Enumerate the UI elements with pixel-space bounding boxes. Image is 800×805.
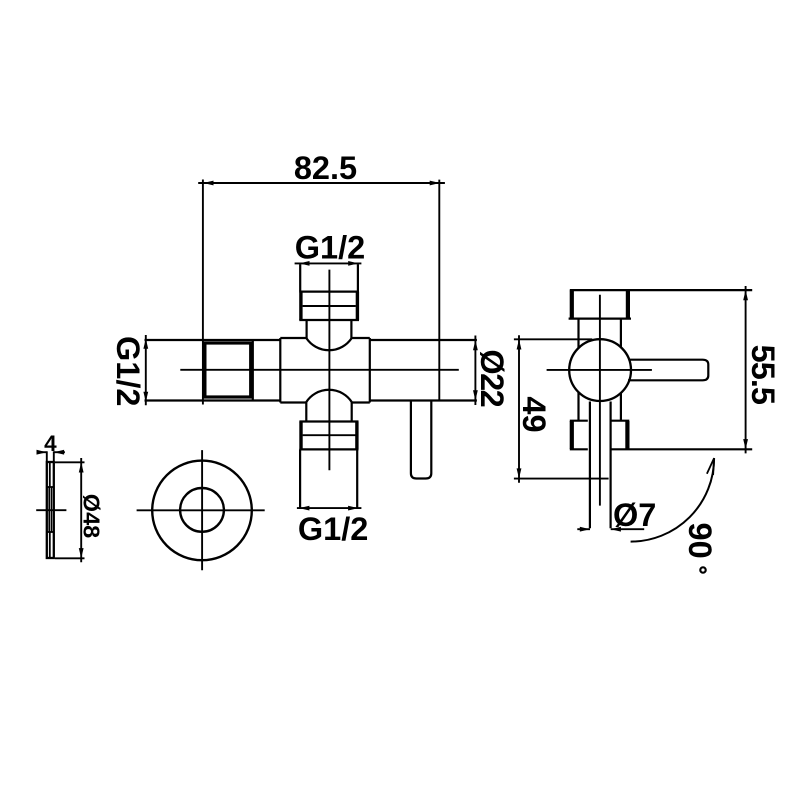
left flange side view outer rect [47, 462, 54, 558]
main view: outlet rod [411, 401, 431, 479]
dimension diameter-7 line left segment [577, 528, 590, 530]
main view: bottom nut top edge [299, 420, 358, 422]
right view: column right line lower part [620, 393, 622, 421]
dimension 4 left line segment [38, 451, 47, 453]
dimension diameter-48 top arrow [79, 462, 84, 472]
main view: bottom pipe left line [299, 449, 301, 508]
dimension 55.5 bottom arrow [743, 439, 748, 449]
dimension G1/2 left top arrow [143, 339, 148, 349]
main view: valve body left port section bottom line [145, 399, 281, 401]
circle view crosshair horizontal [137, 509, 265, 511]
dimension diameter-22 top arrow [473, 340, 478, 350]
dimension diameter-22 line [474, 336, 476, 406]
dimension diameter-48 bottom extension line [55, 557, 85, 559]
main view: top neck left line [306, 320, 308, 339]
main view: top nut bottom edge [299, 319, 359, 321]
right view: hose tube left line [589, 402, 591, 529]
right view: horizontal centerline through knob [547, 369, 652, 371]
main view: bottom neck right line [351, 402, 353, 422]
dimension diameter-7 line right segment [611, 528, 645, 530]
svg-text:49: 49 [516, 396, 552, 432]
main view: boss left edge vertical [279, 338, 281, 403]
right view: column left line lower part [577, 392, 579, 420]
dimension 4 right line segment [54, 451, 65, 453]
svg-text:90: 90 [682, 523, 718, 559]
main view: top nut mid facet line [303, 305, 356, 307]
main view: boss section top line (left of top neck) [280, 337, 306, 339]
dimension 82.5 right arrow [430, 181, 440, 186]
right view: lower rect bottom line left segment [570, 448, 588, 450]
main view: right section bottom line (extends as diameter-22 extension) [370, 399, 477, 401]
right view: handle outline [628, 360, 708, 381]
left flange tick upper [47, 486, 54, 488]
main view: top neck right line [350, 320, 352, 339]
main view: internal vertical line right of square [252, 340, 254, 401]
main view: boss section bottom line (left of bottom neck) [280, 401, 306, 403]
right view: vertical centerline [599, 295, 601, 506]
main view: valve body left port section top line [145, 339, 281, 341]
left flange crosshair horizontal [36, 509, 66, 511]
dimension G1/2 left vertical line [145, 335, 147, 405]
main view: top dome arc [307, 339, 352, 351]
dimension G1/2 bottom line [297, 507, 362, 509]
dimension 82.5 left extension line [202, 180, 204, 405]
dimension diameter-7 right arrow (outside pointing left) [611, 527, 621, 532]
main view: top pipe right line [357, 264, 359, 291]
dimension diameter-48 bottom arrow [79, 548, 84, 558]
right view: column left line upper part [577, 319, 579, 348]
dimension G1/2 top right arrow [348, 261, 358, 266]
right view: lower rect bottom line right segment (extends as 55.5 extension) [611, 448, 753, 450]
svg-text:G1/2: G1/2 [295, 229, 365, 265]
dimension G1/2 top left arrow [299, 261, 309, 266]
right view: top rect left thick edge [570, 290, 574, 318]
main view: top nut right thick edge [356, 292, 359, 320]
left flange hub line a [48, 487, 50, 532]
right view: lower rect top line right segment [611, 420, 630, 422]
main view: valve seat square (thick) [205, 343, 251, 397]
dimension 55.5 top arrow [743, 290, 748, 300]
dimension diameter-7 left arrow (outside pointing right) [580, 527, 590, 532]
main view: boss section top line (right of top neck) [351, 337, 369, 339]
svg-text:G1/2: G1/2 [110, 336, 146, 406]
right view: top rect right thick edge [626, 290, 630, 318]
dimension 4 left extension line [46, 451, 48, 461]
dimension 55.5 line [745, 286, 747, 453]
dimension diameter-48 line [80, 458, 82, 562]
main view: boss section bottom line (right of bottom neck) [352, 401, 370, 403]
degree ring of 90 label [700, 567, 705, 572]
left flange tick lower [47, 531, 54, 533]
dimension G1/2 top line [295, 262, 362, 264]
dimension 82.5 left arrow [203, 181, 213, 186]
svg-text:Ø22: Ø22 [474, 349, 510, 406]
dimension 4 left arrow (outside pointing right) [37, 450, 47, 455]
svg-text:G1/2: G1/2 [298, 511, 368, 547]
90 degree arc open arrowhead [707, 458, 714, 475]
circle view crosshair vertical [201, 450, 203, 570]
dimension 4 right arrow (outside pointing left) [54, 450, 64, 455]
front circle view outer circle [152, 461, 252, 561]
right view: top rect top line (extends right as 55.5 extension) [570, 289, 752, 291]
right view: knob circle [569, 339, 631, 401]
left flange inner line bottom segment [49, 532, 51, 557]
main view: vertical centerline [328, 270, 330, 471]
svg-text:Ø48: Ø48 [78, 494, 104, 538]
main view: top pipe left line [299, 264, 301, 291]
left flange hub line b [50, 487, 52, 532]
right view: column right line upper part [620, 319, 622, 348]
right view: top rect bottom line [569, 318, 631, 320]
svg-text:55.5: 55.5 [745, 345, 781, 405]
front circle view inner circle [180, 488, 224, 532]
main view: bottom nut right thick edge [355, 422, 358, 450]
main view: top nut left thick edge [299, 292, 302, 320]
main view: bottom nut left thick edge [299, 422, 302, 450]
dimension diameter-48 top extension line [55, 461, 85, 463]
dimension G1/2 left bottom arrow [143, 392, 148, 402]
main view: right section top line (extends as diameter-22 extension) [370, 339, 477, 341]
main view: bottom neck left line [305, 402, 307, 422]
svg-text:4: 4 [44, 431, 57, 456]
right view: hose tube right line [609, 402, 611, 529]
dimension 49 bottom arrow [517, 468, 522, 478]
dimension 82.5 line [198, 182, 445, 184]
main view: body right edge (also 82.5 right extension line) [438, 180, 440, 401]
main view: top nut top edge [299, 291, 359, 293]
svg-text:82.5: 82.5 [294, 150, 357, 186]
right view: lower rect right thick edge [625, 421, 629, 449]
svg-text:Ø7: Ø7 [613, 497, 656, 533]
left flange inner line top segment [49, 463, 51, 487]
main view: horizontal centerline [180, 369, 459, 371]
dimension 49 top extension line [514, 338, 592, 340]
main view: bottom pipe right line [356, 449, 358, 508]
dimension 4 right extension line [53, 451, 55, 461]
right view: lower rect left thick edge [570, 421, 574, 449]
right view: lower rect top line left segment [570, 420, 588, 422]
dimension 49 bottom extension line [514, 478, 609, 480]
dimension 49 line [518, 335, 520, 482]
90 degree arc [631, 458, 715, 541]
main view: boss right edge vertical [369, 338, 371, 403]
dimension G1/2 bottom right arrow [348, 506, 358, 511]
dimension diameter-22 bottom arrow [473, 390, 478, 400]
dimension G1/2 bottom left arrow [299, 506, 309, 511]
main view: bottom nut bottom edge [299, 448, 358, 450]
main view: bottom nut mid facet line [303, 434, 356, 436]
main view: bottom dome arc [306, 390, 351, 402]
dimension 49 top arrow [517, 339, 522, 349]
